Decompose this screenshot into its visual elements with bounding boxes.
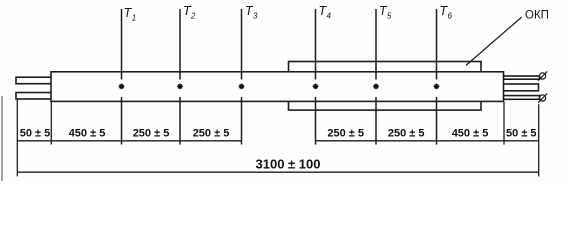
svg-text:250 ± 5: 250 ± 5 [193,128,230,140]
svg-text:50 ± 5: 50 ± 5 [20,128,51,140]
svg-text:2: 2 [190,12,196,21]
svg-text:450 ± 5: 450 ± 5 [69,128,106,140]
svg-text:4: 4 [327,12,332,21]
svg-text:6: 6 [448,12,453,21]
svg-text:3100 ± 100: 3100 ± 100 [256,157,321,172]
svg-text:250 ± 5: 250 ± 5 [388,128,425,140]
svg-text:450 ± 5: 450 ± 5 [452,128,489,140]
svg-text:250 ± 5: 250 ± 5 [133,128,170,140]
svg-text:3: 3 [253,12,258,21]
svg-text:50 ± 5: 50 ± 5 [506,128,537,140]
svg-text:ОКП: ОКП [525,10,549,22]
svg-text:5: 5 [387,12,392,21]
svg-text:250 ± 5: 250 ± 5 [327,128,364,140]
svg-text:1: 1 [132,14,136,23]
